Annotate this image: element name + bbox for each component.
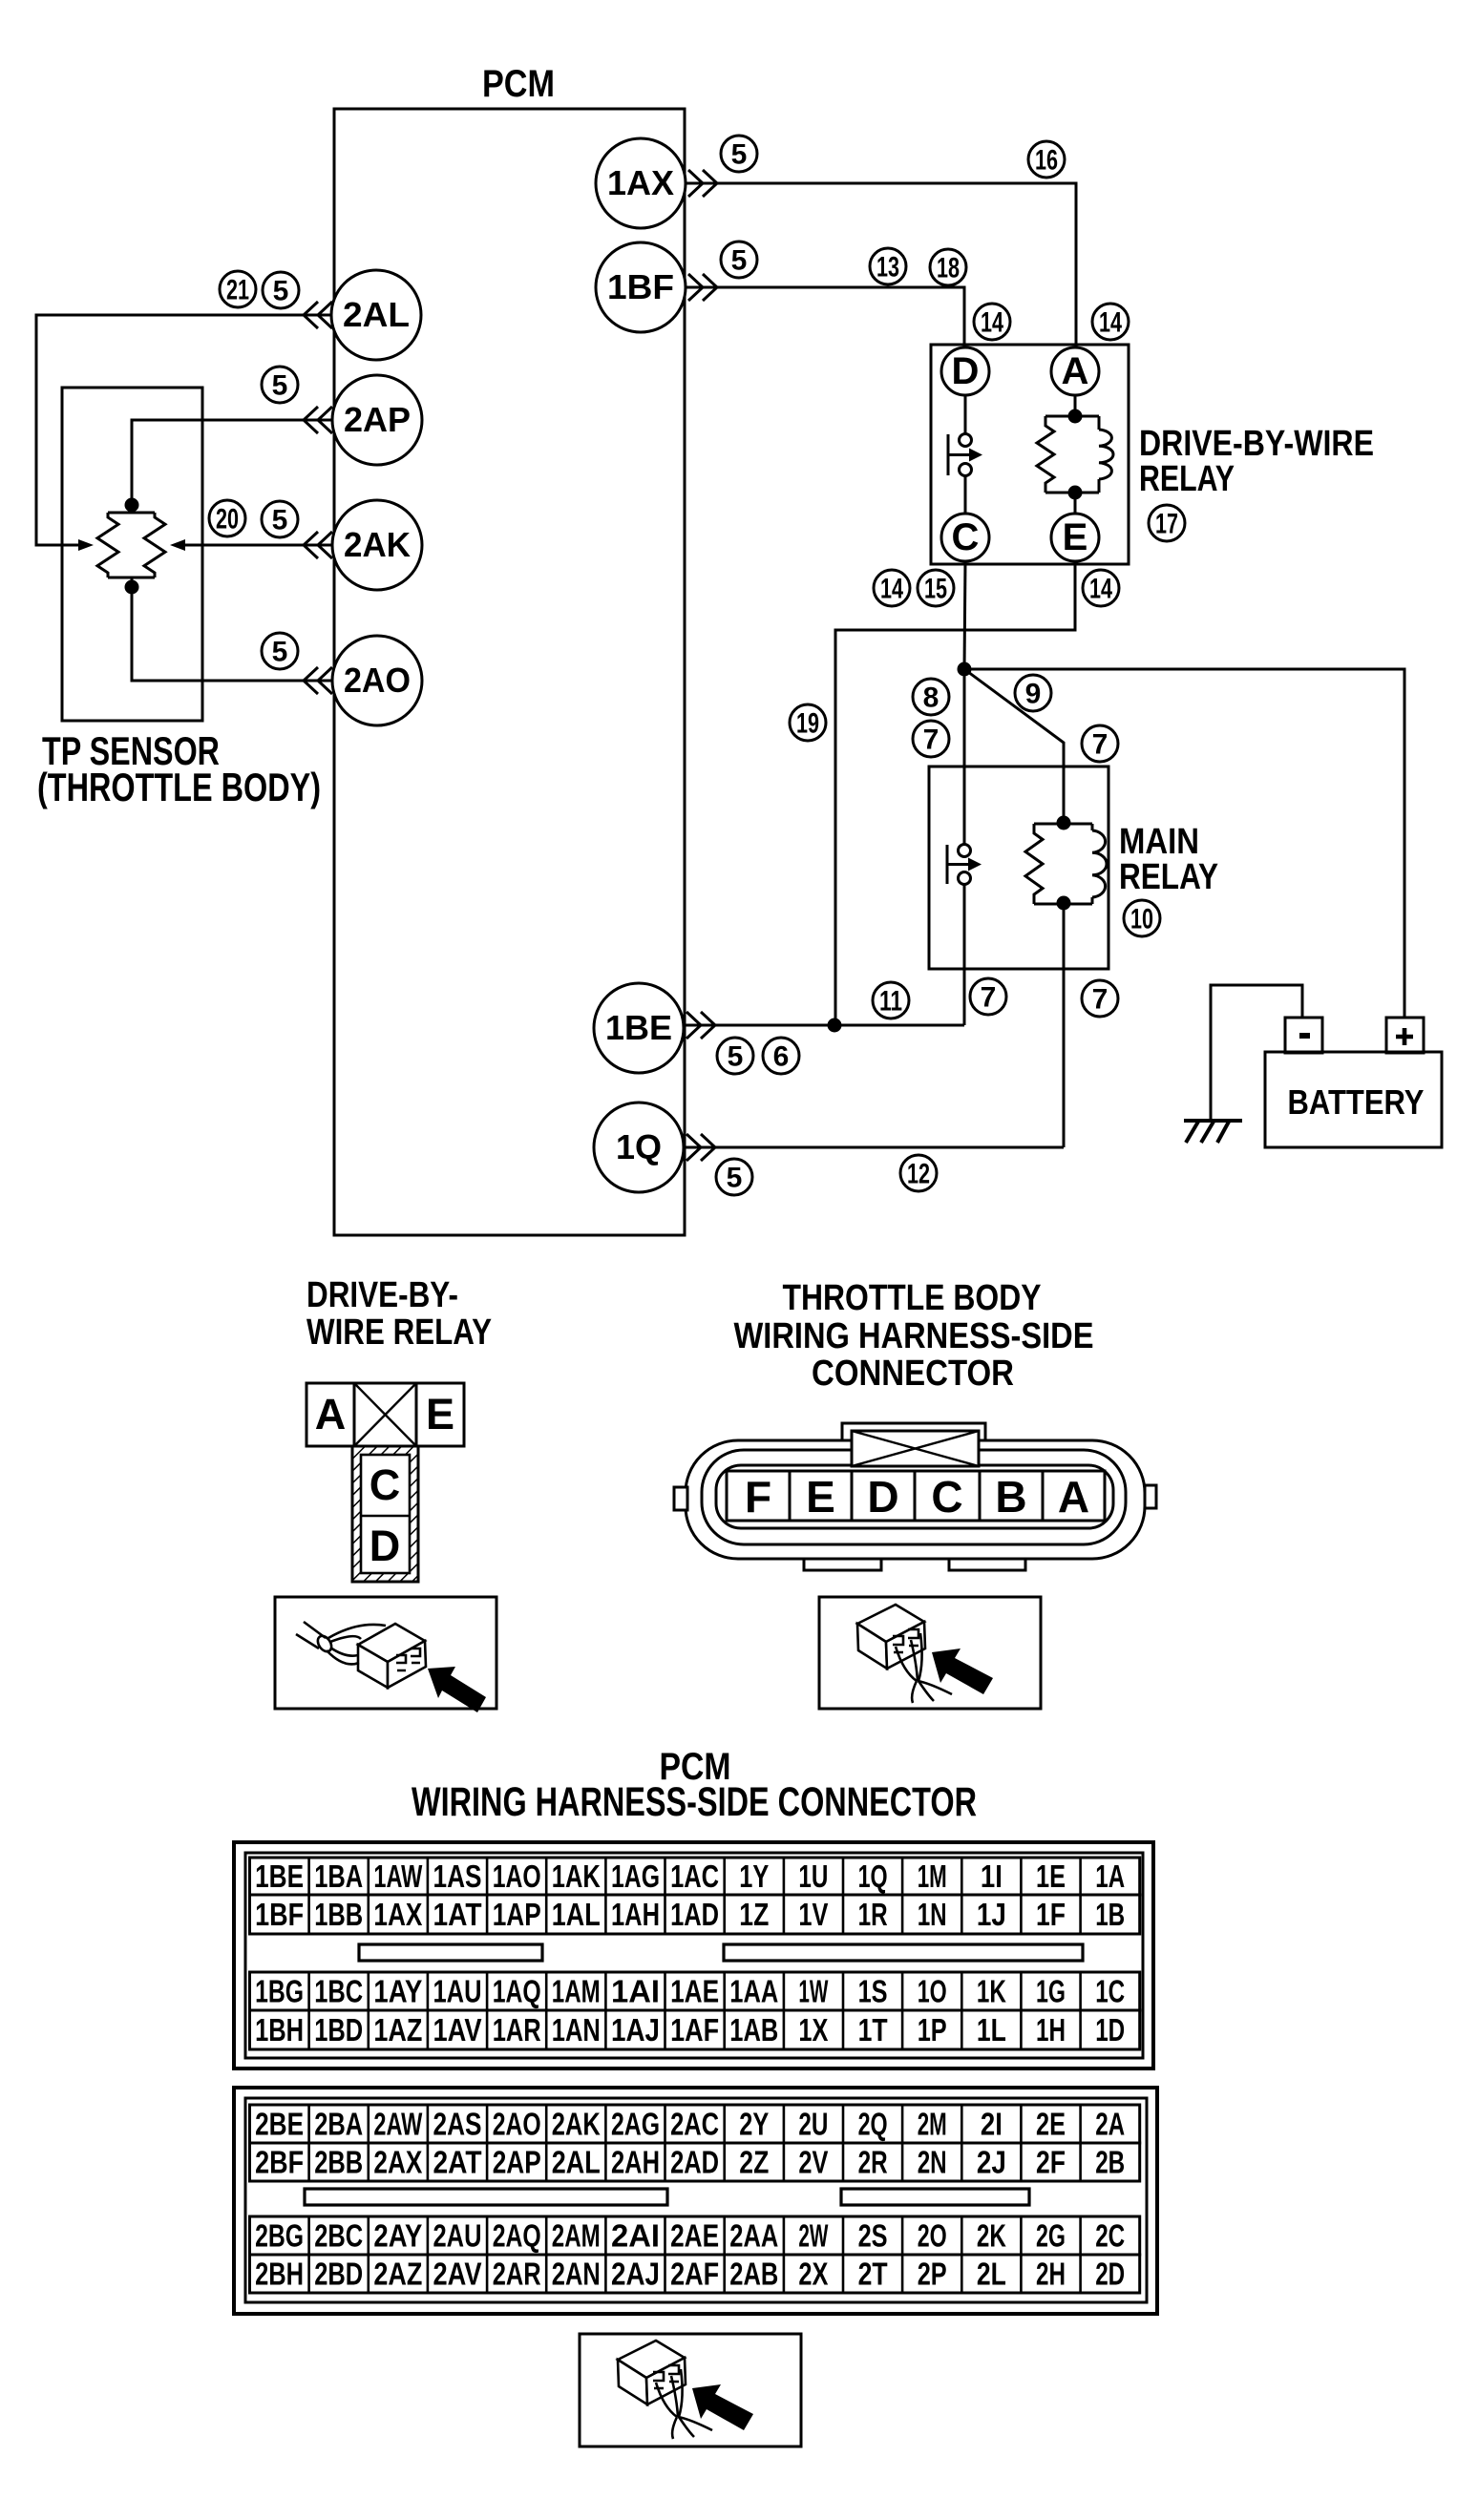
svg-text:2AY: 2AY	[373, 2218, 422, 2254]
svg-text:2O: 2O	[918, 2218, 947, 2254]
svg-text:2AE: 2AE	[670, 2218, 719, 2254]
wire number 13	[870, 248, 906, 284]
TB connector outer shell	[686, 1440, 1145, 1559]
ground	[1184, 1121, 1242, 1143]
PCM pin 1BE	[594, 983, 684, 1073]
svg-text:5: 5	[728, 1041, 744, 1073]
svg-text:2AN: 2AN	[552, 2257, 601, 2292]
main relay box	[929, 766, 1108, 969]
svg-text:2U: 2U	[798, 2107, 828, 2142]
PCM pin 1BF	[596, 242, 686, 332]
svg-text:1BG: 1BG	[255, 1974, 304, 2009]
svg-text:7: 7	[923, 724, 940, 756]
coil branch rails (main)	[1034, 824, 1092, 904]
svg-text:1BA: 1BA	[314, 1858, 363, 1894]
svg-text:F: F	[745, 1472, 771, 1522]
sensor element rails	[108, 505, 155, 587]
svg-text:1Q: 1Q	[616, 1127, 662, 1166]
svg-text:2BH: 2BH	[255, 2257, 304, 2292]
svg-text:7: 7	[1092, 729, 1108, 761]
drive-by-wire relay switch	[948, 434, 982, 476]
svg-text:2BC: 2BC	[314, 2218, 363, 2254]
svg-text:21: 21	[226, 275, 249, 306]
svg-text:2AO: 2AO	[493, 2107, 541, 2142]
TP sensor resistor element right	[144, 513, 165, 577]
svg-text:E: E	[426, 1390, 454, 1438]
svg-text:2BF: 2BF	[255, 2145, 304, 2180]
svg-text:5: 5	[727, 1163, 743, 1194]
svg-text:5: 5	[731, 139, 748, 171]
svg-text:10: 10	[1130, 904, 1153, 935]
coil branch rails (DBW)	[1045, 416, 1099, 493]
coil leads (DBW)	[1098, 416, 1101, 493]
PCM box	[334, 109, 685, 1235]
svg-text:2AP: 2AP	[344, 400, 411, 439]
PCM connector row 2BG-2C	[250, 2216, 1140, 2255]
wire number 12	[900, 1155, 937, 1191]
svg-text:WIRING HARNESS-SIDE CONNECTOR: WIRING HARNESS-SIDE CONNECTOR	[412, 1779, 977, 1825]
drive-by-wire relay coil	[1099, 430, 1113, 479]
svg-text:19: 19	[796, 708, 819, 740]
wire number 5 (1AX wire)	[721, 136, 757, 172]
svg-text:(THROTTLE BODY): (THROTTLE BODY)	[37, 765, 321, 809]
svg-text:1BD: 1BD	[314, 2012, 363, 2047]
svg-text:18: 18	[937, 253, 960, 284]
svg-text:2W: 2W	[798, 2218, 829, 2254]
wire number 7 (coil top)	[1082, 725, 1118, 762]
DBW connector icon frame	[275, 1597, 496, 1709]
plus sign	[1396, 1028, 1413, 1045]
wire number 5 (2AK)	[262, 501, 298, 537]
svg-text:1AN: 1AN	[552, 2012, 601, 2047]
svg-text:2AL: 2AL	[343, 295, 410, 334]
TB connector right tab	[1145, 1485, 1156, 1508]
svg-text:2AZ: 2AZ	[373, 2257, 422, 2292]
drive-by-wire relay resistor	[1037, 416, 1054, 493]
svg-text:1B: 1B	[1095, 1897, 1125, 1932]
svg-text:1O: 1O	[918, 1974, 947, 2009]
TB connector icon arrow	[932, 1648, 993, 1694]
svg-text:14: 14	[1089, 574, 1112, 605]
svg-text:2M: 2M	[918, 2107, 947, 2142]
svg-text:2AO: 2AO	[344, 661, 411, 700]
svg-text:2BD: 2BD	[314, 2257, 363, 2292]
svg-text:CONNECTOR: CONNECTOR	[812, 1354, 1014, 1394]
svg-text:1AC: 1AC	[670, 1858, 719, 1894]
svg-text:2AI: 2AI	[611, 2218, 660, 2254]
svg-text:E: E	[806, 1472, 835, 1522]
svg-text:2AJ: 2AJ	[611, 2257, 660, 2292]
svg-text:C: C	[369, 1460, 401, 1509]
wire 1AX to relay pin A	[686, 183, 1076, 347]
wire number 14 (pin A)	[1092, 304, 1129, 340]
svg-text:5: 5	[272, 370, 288, 402]
wire number 7 (switch bottom)	[970, 978, 1006, 1015]
DBW connector cell E	[416, 1383, 464, 1446]
svg-text:2BE: 2BE	[255, 2107, 304, 2142]
svg-text:1L: 1L	[977, 2012, 1006, 2047]
wire 2AK to sensor wiper right	[185, 544, 332, 547]
svg-text:1W: 1W	[798, 1974, 829, 2009]
svg-text:2P: 2P	[918, 2257, 947, 2292]
svg-text:2F: 2F	[1036, 2145, 1066, 2180]
wire number 7 (switch top)	[913, 721, 949, 757]
svg-text:1C: 1C	[1095, 1974, 1125, 2009]
svg-text:C: C	[952, 516, 980, 558]
svg-text:1AL: 1AL	[552, 1897, 601, 1932]
TB connector pin row F-A	[727, 1471, 1105, 1521]
wire battery - to ground	[1211, 985, 1302, 1121]
TB connector bottom tab 1	[804, 1559, 881, 1570]
svg-text:DRIVE-BY-: DRIVE-BY-	[306, 1275, 458, 1315]
PCM connector row 2BH-2D	[250, 2255, 1140, 2293]
PCM connector row 2BE-2A	[250, 2105, 1140, 2143]
wire number 11	[873, 982, 909, 1018]
svg-text:D: D	[952, 350, 980, 392]
svg-text:A: A	[1058, 1472, 1089, 1522]
svg-text:17: 17	[1155, 509, 1178, 540]
PCM connector 2 key bar left	[305, 2189, 667, 2205]
TP sensor box	[62, 388, 202, 721]
svg-text:2BB: 2BB	[314, 2145, 363, 2180]
svg-text:5: 5	[273, 276, 289, 307]
svg-text:1Y: 1Y	[739, 1858, 769, 1894]
svg-text:2V: 2V	[798, 2145, 828, 2180]
svg-text:2AQ: 2AQ	[493, 2218, 541, 2254]
svg-text:2AM: 2AM	[552, 2218, 601, 2254]
arrow out 1BE	[686, 1012, 715, 1039]
svg-text:2AR: 2AR	[493, 2257, 541, 2292]
svg-text:B: B	[995, 1472, 1026, 1522]
relay pin A	[1051, 347, 1099, 395]
svg-text:2AG: 2AG	[611, 2107, 660, 2142]
svg-text:1V: 1V	[798, 1897, 828, 1932]
svg-text:14: 14	[1099, 307, 1122, 339]
svg-text:D: D	[369, 1522, 401, 1570]
svg-text:1A: 1A	[1095, 1858, 1125, 1894]
svg-text:A: A	[315, 1390, 347, 1438]
svg-text:9: 9	[1025, 679, 1042, 710]
wire number 5 (1BE)	[717, 1038, 753, 1074]
wire 1BF to relay pin D	[686, 287, 964, 347]
svg-text:7: 7	[1092, 984, 1108, 1016]
svg-text:1Z: 1Z	[739, 1897, 769, 1932]
svg-text:1H: 1H	[1036, 2012, 1066, 2047]
svg-text:1AT: 1AT	[433, 1897, 482, 1932]
wire node to battery +	[964, 669, 1404, 1018]
svg-text:1AE: 1AE	[670, 1974, 719, 2009]
wire number 5 (1Q)	[716, 1159, 752, 1195]
svg-text:13: 13	[876, 252, 899, 283]
svg-text:11: 11	[879, 986, 902, 1018]
svg-text:C: C	[931, 1472, 962, 1522]
wire coil to 1Q line	[1063, 903, 1066, 1147]
wire number 17	[1149, 505, 1185, 541]
svg-text:2BG: 2BG	[255, 2218, 304, 2254]
wire A to coil top	[1074, 395, 1077, 416]
main relay switch	[947, 845, 982, 885]
svg-text:14: 14	[880, 574, 903, 605]
svg-text:WIRING HARNESS-SIDE: WIRING HARNESS-SIDE	[734, 1316, 1094, 1356]
svg-text:2A: 2A	[1095, 2107, 1125, 2142]
TB connector bottom tab 2	[949, 1559, 1025, 1570]
junction coil bottom (main)	[1057, 896, 1071, 911]
svg-text:2AL: 2AL	[552, 2145, 601, 2180]
svg-text:E: E	[1063, 516, 1088, 558]
PCM connector icon	[618, 2341, 712, 2439]
svg-text:15: 15	[924, 574, 947, 605]
svg-text:5: 5	[272, 637, 288, 668]
svg-text:1AG: 1AG	[611, 1858, 660, 1894]
svg-text:1AF: 1AF	[670, 2012, 719, 2047]
DBW connector key (crossed)	[354, 1383, 416, 1446]
wire 1Q to main relay coil	[684, 1146, 1064, 1149]
TP sensor resistor element left	[97, 513, 118, 577]
wire number 6	[763, 1038, 799, 1074]
svg-text:2AB: 2AB	[729, 2257, 778, 2292]
svg-text:1M: 1M	[918, 1858, 947, 1894]
svg-text:2Y: 2Y	[739, 2107, 769, 2142]
svg-text:1S: 1S	[858, 1974, 888, 2009]
svg-text:1X: 1X	[798, 2012, 828, 2047]
svg-text:1AJ: 1AJ	[611, 2012, 660, 2047]
svg-text:2H: 2H	[1036, 2257, 1066, 2292]
TB connector left tab	[674, 1487, 687, 1510]
svg-text:1D: 1D	[1095, 2012, 1125, 2047]
svg-text:1AZ: 1AZ	[373, 2012, 422, 2047]
svg-text:2Q: 2Q	[858, 2107, 888, 2142]
svg-text:16: 16	[1035, 145, 1058, 177]
svg-text:1AM: 1AM	[552, 1974, 601, 2009]
svg-text:2AH: 2AH	[611, 2145, 660, 2180]
svg-text:7: 7	[981, 982, 997, 1014]
svg-text:1AX: 1AX	[373, 1897, 422, 1932]
TB connector icon	[857, 1605, 952, 1703]
wiper arrow left	[78, 539, 94, 551]
svg-text:1AP: 1AP	[493, 1897, 541, 1932]
wire number 21	[220, 271, 256, 307]
PCM pin 1Q	[594, 1102, 684, 1192]
wire coil to E	[1074, 493, 1077, 514]
svg-text:1J: 1J	[977, 1897, 1006, 1932]
svg-text:1AR: 1AR	[493, 2012, 541, 2047]
wire switch to 1BE line	[963, 885, 966, 1025]
svg-text:THROTTLE BODY: THROTTLE BODY	[783, 1278, 1042, 1318]
svg-text:1AV: 1AV	[433, 2012, 482, 2047]
wire number 5 (2AO)	[262, 633, 298, 669]
svg-text:1AS: 1AS	[433, 1858, 482, 1894]
main relay resistor	[1025, 824, 1043, 904]
battery box	[1265, 1052, 1442, 1147]
svg-text:2AK: 2AK	[344, 525, 411, 564]
svg-text:1BF: 1BF	[255, 1897, 304, 1932]
TB connector shell ring 2	[702, 1450, 1126, 1544]
wire node to main relay switch	[963, 669, 966, 850]
wire number 15	[918, 570, 954, 606]
TB connector shell ring 3	[716, 1465, 1113, 1528]
svg-text:1R: 1R	[858, 1897, 888, 1932]
PCM pin 2AK	[332, 500, 422, 590]
svg-text:2T: 2T	[858, 2257, 888, 2292]
svg-text:2I: 2I	[981, 2107, 1003, 2142]
DBW connector icon	[296, 1622, 426, 1688]
junction coil top (DBW)	[1068, 409, 1083, 424]
PCM connector 2 inner frame	[245, 2098, 1147, 2302]
PCM connector row 1BH-1D	[250, 2010, 1140, 2049]
battery negative terminal	[1285, 1018, 1322, 1053]
svg-text:2AD: 2AD	[670, 2145, 719, 2180]
svg-text:2K: 2K	[977, 2218, 1006, 2254]
wire number 5 (2AL)	[263, 272, 299, 308]
PCM connector row 1BG-1C	[250, 1972, 1140, 2010]
PCM connector icon frame	[580, 2334, 801, 2446]
svg-text:1T: 1T	[858, 2012, 888, 2047]
PCM connector row 1BF-1B	[250, 1895, 1140, 1934]
svg-text:2X: 2X	[798, 2257, 828, 2292]
svg-text:1K: 1K	[977, 1974, 1006, 2009]
svg-text:2R: 2R	[858, 2145, 888, 2180]
svg-text:20: 20	[216, 504, 239, 535]
node battery feed junction	[958, 662, 972, 677]
wire C down to node	[964, 561, 965, 669]
arrow out 1BF	[688, 274, 717, 301]
svg-text:2AA: 2AA	[729, 2218, 778, 2254]
wire number 9	[1015, 675, 1051, 711]
svg-text:2Z: 2Z	[739, 2145, 769, 2180]
svg-text:1G: 1G	[1036, 1974, 1066, 2009]
PCM connector row 1BE-1A	[250, 1858, 1140, 1895]
wire number 14 (pin C)	[874, 570, 910, 606]
wire D to switch	[964, 395, 967, 434]
coil leads (main)	[1091, 824, 1094, 904]
svg-text:2B: 2B	[1095, 2145, 1125, 2180]
svg-text:1U: 1U	[798, 1858, 828, 1894]
PCM connector 1 key bar left	[359, 1944, 542, 1961]
svg-text:1BH: 1BH	[255, 2012, 304, 2047]
PCM connector 1 inner frame	[245, 1853, 1143, 2058]
svg-text:1N: 1N	[918, 1897, 947, 1932]
wire 2AP to sensor top	[132, 420, 332, 498]
arrow into 2AP	[304, 407, 332, 433]
minus sign	[1299, 1033, 1310, 1039]
svg-text:A: A	[1062, 350, 1089, 392]
PCM connector 2 key bar right	[841, 2189, 1029, 2205]
DBW connector icon arrow	[428, 1667, 486, 1712]
svg-text:1BE: 1BE	[255, 1858, 304, 1894]
PCM connector 1 key bar right	[724, 1944, 1083, 1961]
relay pin E	[1051, 514, 1099, 561]
arrow into 2AK	[304, 532, 332, 558]
svg-text:BATTERY: BATTERY	[1288, 1082, 1425, 1122]
svg-text:1F: 1F	[1036, 1897, 1066, 1932]
svg-text:2BA: 2BA	[314, 2107, 363, 2142]
PCM connector row 2BF-2B	[250, 2143, 1140, 2181]
svg-text:2J: 2J	[977, 2145, 1006, 2180]
wire node to main relay coil	[964, 669, 1064, 823]
wire switch to C	[964, 475, 967, 514]
PCM connector icon arrow	[692, 2384, 753, 2430]
PCM pin 2AO	[332, 636, 422, 725]
wire number 7 (coil bottom)	[1082, 980, 1118, 1017]
wire number 10	[1124, 900, 1160, 936]
arrow out 1AX	[688, 170, 717, 197]
svg-text:2AP: 2AP	[493, 2145, 541, 2180]
PCM pin 1AX	[596, 138, 686, 228]
svg-text:1P: 1P	[918, 2012, 947, 2047]
svg-text:2G: 2G	[1036, 2218, 1066, 2254]
svg-text:6: 6	[773, 1041, 790, 1073]
wiper arrow right	[170, 539, 185, 551]
wire number 14 (pin E)	[1083, 570, 1119, 606]
svg-text:2AW: 2AW	[373, 2107, 423, 2142]
svg-text:DRIVE-BY-WIRE: DRIVE-BY-WIRE	[1139, 424, 1374, 464]
svg-text:1AH: 1AH	[611, 1897, 660, 1932]
svg-text:1AQ: 1AQ	[493, 1974, 541, 2009]
wire number 20	[209, 500, 245, 536]
svg-text:12: 12	[907, 1159, 930, 1190]
svg-text:2AX: 2AX	[373, 2145, 422, 2180]
TB connector key (crossed)	[852, 1431, 979, 1466]
main relay coil	[1092, 830, 1107, 897]
PCM connector 1 outer frame	[234, 1842, 1153, 2068]
svg-text:1AK: 1AK	[552, 1858, 601, 1894]
svg-text:2AS: 2AS	[433, 2107, 482, 2142]
junction coil bottom (DBW)	[1068, 486, 1083, 500]
svg-text:2AV: 2AV	[433, 2257, 482, 2292]
wire number 14 (pin D)	[974, 304, 1010, 340]
svg-text:1E: 1E	[1036, 1858, 1066, 1894]
svg-text:2S: 2S	[858, 2218, 888, 2254]
svg-text:2C: 2C	[1095, 2218, 1125, 2254]
wire number 16	[1028, 141, 1065, 178]
svg-text:2E: 2E	[1036, 2107, 1066, 2142]
arrow into 2AL	[304, 302, 332, 328]
svg-text:1AX: 1AX	[607, 163, 674, 202]
svg-text:1Q: 1Q	[858, 1858, 888, 1894]
wire number 8	[913, 679, 949, 715]
svg-text:1AD: 1AD	[670, 1897, 719, 1932]
svg-text:1BE: 1BE	[605, 1008, 672, 1047]
battery positive terminal	[1386, 1018, 1424, 1053]
svg-text:2AK: 2AK	[552, 2107, 601, 2142]
svg-text:2AF: 2AF	[670, 2257, 719, 2292]
wire number 5 (2AP)	[262, 367, 298, 403]
sensor node top	[125, 498, 139, 513]
svg-text:1BC: 1BC	[314, 1974, 363, 2009]
sensor node bottom	[125, 580, 139, 595]
svg-text:14: 14	[981, 307, 1003, 339]
drive-by-wire relay box	[931, 345, 1129, 564]
svg-text:D: D	[867, 1472, 898, 1522]
wire 2AO to sensor bottom	[132, 594, 332, 681]
svg-text:WIRE RELAY: WIRE RELAY	[306, 1312, 492, 1353]
svg-text:2AU: 2AU	[433, 2218, 482, 2254]
DBW connector hatched shaft	[352, 1446, 418, 1582]
svg-text:RELAY: RELAY	[1119, 857, 1218, 897]
svg-text:PCM: PCM	[482, 63, 555, 105]
svg-text:5: 5	[272, 505, 288, 536]
svg-text:1AI: 1AI	[611, 1974, 660, 2009]
wire 2AL to sensor wiper left	[36, 315, 332, 545]
svg-text:MAIN: MAIN	[1119, 822, 1199, 862]
node 1BE / E-wire junction	[828, 1018, 842, 1033]
wire E to 1BE line (19)	[835, 561, 1075, 1025]
DBW connector cell A	[306, 1383, 354, 1446]
relay pin C	[941, 514, 989, 561]
PCM pin 2AP	[332, 375, 422, 465]
TB connector icon frame	[819, 1597, 1041, 1709]
wire number 18	[930, 249, 966, 285]
